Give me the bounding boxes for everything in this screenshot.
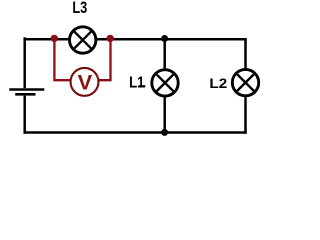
battery long plate: [9, 88, 44, 91]
node: black junction dot bottom of L1 branch: [161, 129, 168, 136]
wire: top wire left segment (top-left corner to lamp L3): [24, 38, 69, 41]
battery short plate: [15, 93, 35, 96]
serif foot of digit 1: [139, 85, 146, 87]
wire: right wire upper (top-right corner to lamp L2): [244, 38, 247, 68]
wire: L1 branch lower: [163, 97, 166, 132]
battery B1: [9, 90, 44, 95]
wire: bottom wire: [24, 131, 247, 134]
node: black junction dot top of L1 branch: [161, 35, 168, 42]
wire: left wire upper (top-left corner down to battery): [23, 37, 26, 88]
wire: voltmeter red lead left: [54, 39, 70, 80]
lamp L2: [232, 69, 258, 95]
lamp L3: [70, 27, 96, 53]
voltmeter U1 (meter circle): [71, 68, 99, 96]
svg-text:L2: L2: [209, 75, 227, 91]
node: red junction dot left: [51, 35, 58, 42]
wire: voltmeter red lead right: [99, 39, 111, 80]
svg-text:L3: L3: [72, 0, 87, 17]
wire: top wire right segment (lamp L3 to top-right corner): [97, 38, 247, 41]
lamp L1: [152, 70, 178, 96]
wire: L1 branch upper: [163, 39, 166, 68]
svg-text:V: V: [78, 71, 93, 95]
node: red junction dot right: [107, 35, 114, 42]
wire: right wire lower (lamp L2 to bottom-right corner): [244, 97, 247, 134]
wire: left wire lower (battery down to bottom-left corner): [23, 96, 26, 134]
svg-text:L1: L1: [129, 75, 145, 92]
